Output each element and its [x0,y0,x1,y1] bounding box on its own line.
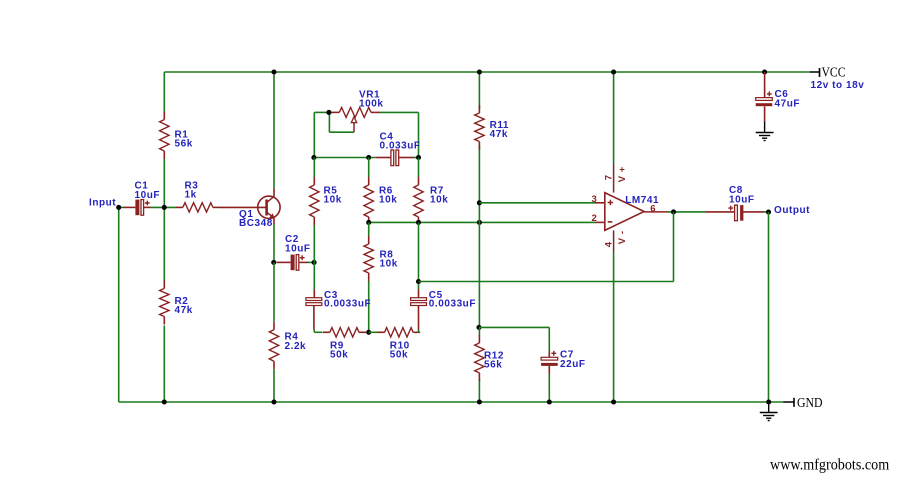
node: pin4/rail junction [611,399,616,404]
wire: C1 leads [132,206,136,208]
node: R5 top junction [311,155,316,160]
wire: inverting input row (R6/R7 bottoms to pin 2) [369,221,595,223]
node: R12 top junction [476,325,481,330]
capacitor C5 [411,290,476,310]
node: C2/R5-column junction [312,260,317,265]
svg-text:100k: 100k [359,99,383,110]
capacitor C1 [135,180,161,215]
wire: R11 column [478,72,480,109]
wire: C3 bottom lead [313,306,315,330]
node: pin7/VCC junction [611,69,616,74]
resistor R5 [310,177,342,225]
svg-text:Output: Output [774,205,810,216]
wire: R4 column [273,262,275,321]
wire: R5 column [313,158,315,178]
wire: bottom ground rail [119,401,784,403]
node: R11 bottom / pin3 junction [477,200,482,205]
resistor R4 [269,322,306,370]
svg-text:56k: 56k [484,360,502,371]
svg-text:50k: 50k [390,350,408,361]
ground symbol below C6 [756,122,774,141]
node: C6/VCC rail junction [762,69,767,74]
resistor R9 [323,328,366,361]
svg-text:7: 7 [603,174,614,180]
capacitor C2 [285,234,311,270]
svg-text:Input: Input [89,197,116,208]
wire: non-inverting input row (pin 3) [479,202,595,204]
svg-text:47k: 47k [490,129,508,140]
capacitor C3 [306,290,371,310]
node: feedback tap on C5 column [416,279,421,284]
svg-text:10uF: 10uF [135,190,161,201]
svg-text:0.0033uF: 0.0033uF [429,299,476,310]
resistor R1 [160,112,193,159]
wire: C7 column [548,327,550,351]
svg-text:10uF: 10uF [729,195,755,206]
svg-text:2.2k: 2.2k [285,341,307,352]
svg-text:47k: 47k [175,305,193,316]
op-amp U1 LM741 [592,164,669,252]
wire: C6 top lead [764,72,766,98]
node: input/R1 junction [162,205,167,210]
wire: R9/R10 junction to R10 [369,331,378,333]
node: Input port [89,197,121,210]
wire: feedback loop [673,212,675,282]
wire: R6 column [368,158,370,178]
node: R8 bottom / R9-R10 junction [366,330,371,335]
svg-text:2: 2 [592,213,598,224]
wire: VCC top rail [164,71,810,73]
node: collector/rail junction [271,69,276,74]
resistor R11 [475,105,509,150]
svg-text:GND: GND [797,395,823,410]
node: Output port [766,205,810,216]
wire: Q1 emitter to C2 node [273,224,275,262]
node: R7 bottom junction [416,220,421,225]
resistor R10 [378,328,421,361]
resistor R7 [414,177,449,225]
wire: VR1 right to R7 column [380,111,419,113]
svg-text:10k: 10k [430,195,448,206]
node: C7 bottom / rail junction [547,399,552,404]
node: VR1 left/wiper junction [326,110,331,115]
node: R12 bottom / rail junction [477,399,482,404]
wire: C3 column (R5 bottom to C3) [313,262,315,289]
wire: input column [118,207,120,402]
svg-text:10k: 10k [324,195,342,206]
node: output/ground-rail junction [766,399,771,404]
resistor R6 [364,177,397,225]
wire: VR1 left to R5 column [314,111,329,113]
node: C4 left / R6 top junction [366,155,371,160]
wire: C2 leads [277,261,291,263]
wire: R1/R2 column [163,72,165,113]
svg-text:10k: 10k [379,195,397,206]
capacitor C6 [756,89,800,109]
wire: C5 column [418,330,420,333]
svg-text:1k: 1k [185,190,197,201]
svg-text:47uF: 47uF [775,99,801,110]
svg-text:V +: V + [617,166,628,182]
svg-text:10uF: 10uF [285,244,311,255]
wire: pin 7 to VCC rail [613,72,615,164]
wire: R7 column [418,158,420,178]
node: C4 right / R7 top junction [416,155,421,160]
transistor Q1 [239,188,280,229]
svg-text:LM741: LM741 [625,195,659,206]
wire: input row to Q1 base [119,206,123,208]
svg-text:3: 3 [592,194,598,205]
resistor R12 [475,335,504,381]
wire: VR1 wiper return loop [329,131,354,133]
svg-text:BC348: BC348 [239,218,273,229]
resistor R2 [160,281,193,325]
wire: R8 column [368,222,370,236]
node: feedback junction on output [671,209,676,214]
ground port GND [783,395,822,410]
svg-text:12v to 18v: 12v to 18v [811,80,865,91]
resistor R8 [364,236,398,281]
capacitor C4 [376,131,421,165]
node: R2/bottom rail junction [162,399,167,404]
wire: C8 leads [706,211,735,213]
wire: R9/R10 row [314,331,322,333]
capacitor C7 [541,350,585,370]
wire: R12/C7 row [479,326,549,328]
potentiometer VR1 [329,89,383,132]
svg-text:0.0033uF: 0.0033uF [324,299,371,310]
svg-text:0.033uF: 0.033uF [380,141,421,152]
node: R6 bottom junction [366,220,371,225]
wire: R12 column [478,327,480,335]
resistor R3 [176,180,220,212]
svg-text:50k: 50k [330,350,348,361]
power port VCC [810,64,846,79]
wire: output column down to ground rail [768,212,770,402]
node: emitter/C2/R4 junction [271,260,276,265]
svg-text:V -: V - [617,230,628,244]
node: R11 top / VCC rail junction [477,69,482,74]
wire: Q1 collector to VCC rail [273,72,275,188]
svg-text:VCC: VCC [822,64,846,79]
svg-text:56k: 56k [175,139,193,150]
svg-text:22uF: 22uF [560,359,586,370]
wire: output row pin6 to Output port [668,211,706,213]
wire: C4 row (R5 top to R7 top) [313,112,315,157]
capacitor C8 [728,185,754,221]
wire: pin 4 to ground rail [613,252,615,402]
wire: C6 bottom lead [764,106,766,121]
node: pin2 row / R11-R12 column junction [477,220,482,225]
svg-text:10k: 10k [380,259,398,270]
node: R4/bottom rail junction [271,399,276,404]
svg-text:www.mfgrobots.com: www.mfgrobots.com [770,456,889,473]
svg-text:4: 4 [603,241,614,247]
ground symbol at bottom rail [760,402,778,420]
